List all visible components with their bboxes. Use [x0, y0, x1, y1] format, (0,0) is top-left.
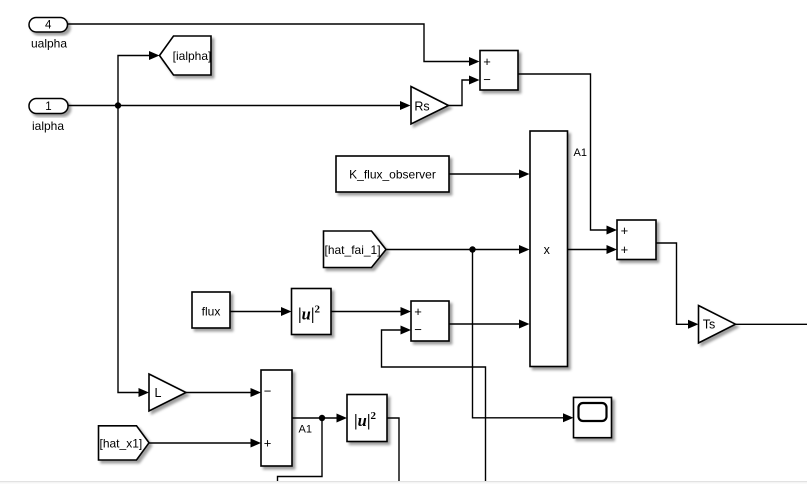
- wire from gain Rs to sum S1 minus input: [449, 80, 471, 106]
- arrowhead into gain Ts: [688, 320, 699, 329]
- wire branch from S4 output junction down and left to bottom edge: [278, 418, 323, 481]
- wire from abs-square U2 output down to bottom edge: [387, 418, 399, 481]
- arrowhead into scope: [563, 413, 574, 422]
- svg-text:[hat_x1]: [hat_x1]: [100, 436, 143, 450]
- from tag [hat_fai_1]: [324, 231, 387, 268]
- svg-text:A1: A1: [299, 424, 312, 436]
- svg-text:ualpha: ualpha: [31, 37, 67, 51]
- arrowhead into sum S4 plus input: [251, 439, 262, 448]
- sum S1: [480, 51, 518, 91]
- wire from constant K_flux_observer to product A1 input 1: [449, 173, 520, 175]
- svg-text:x: x: [544, 243, 551, 257]
- wire branch from hat_fai_1 junction down to scope: [473, 250, 565, 418]
- wire from gain Ts output to right edge: [736, 323, 807, 325]
- arrowhead into sum S1 plus input: [469, 57, 480, 66]
- feedback wire from bottom into sum S3 minus input: [382, 330, 486, 481]
- arrowhead into sum S3 minus input: [401, 326, 412, 335]
- from tag [hat_x1]: [99, 426, 150, 460]
- abs-square U2: [347, 395, 387, 442]
- svg-text:L: L: [155, 386, 162, 400]
- arrowhead into product A1 input 2: [519, 245, 530, 254]
- arrowhead into gain Rs: [400, 101, 411, 110]
- constant flux: [192, 292, 230, 328]
- gain Rs: [411, 87, 449, 125]
- gain L: [149, 374, 186, 411]
- arrowhead into sum S3 plus input: [401, 307, 412, 316]
- arrowhead into product A1 input 3: [519, 320, 530, 329]
- svg-text:+: +: [621, 223, 629, 238]
- svg-text:+: +: [264, 435, 272, 450]
- wire from sum S1 output to sum S2 top input: [518, 74, 608, 230]
- inport 1: [29, 99, 68, 114]
- svg-text:[hat_fai_1]: [hat_fai_1]: [325, 243, 381, 257]
- inport 4: [29, 18, 68, 33]
- arrowhead into abs-square U2: [337, 414, 348, 423]
- svg-text:+: +: [414, 304, 422, 319]
- canvas bottom edge: [0, 482, 807, 484]
- junction node on ialpha wire: [115, 102, 121, 108]
- wire from from-tag hat_x1 to sum S4 plus input: [149, 442, 252, 444]
- wire branch up to goto [ialpha]: [118, 56, 150, 106]
- svg-text:ialpha: ialpha: [32, 119, 64, 133]
- arrowhead into product A1 input 1: [519, 170, 530, 179]
- sum S2: [617, 220, 656, 260]
- svg-text:−: −: [264, 384, 272, 399]
- wire from sum S4 output to abs-square U2: [292, 417, 338, 419]
- junction node on sum S4 output: [319, 415, 325, 421]
- wire from inport 1 (ialpha) to gain Rs: [68, 105, 401, 107]
- scope: [574, 397, 612, 437]
- svg-text:[ialpha]: [ialpha]: [173, 49, 212, 63]
- svg-text:1: 1: [45, 101, 51, 113]
- arrowhead into sum S2 top input: [607, 226, 618, 235]
- arrowhead into goto [ialpha]: [149, 51, 160, 60]
- wire from flux block to abs-square U1: [230, 311, 282, 313]
- sum S3: [411, 301, 449, 341]
- abs-square U1: [292, 289, 332, 335]
- product A1 (element-wise multiply): [530, 131, 568, 367]
- goto tag [ialpha]: [160, 36, 212, 75]
- arrowhead into sum S4 minus input: [251, 388, 262, 397]
- wire from inport 4 to sum S1 plus input: [68, 24, 471, 62]
- svg-text:−: −: [414, 322, 422, 337]
- arrowhead into sum S1 minus input: [469, 76, 480, 85]
- svg-text:K_flux_observer: K_flux_observer: [349, 167, 436, 181]
- arrowhead into sum S2 bottom input: [607, 245, 618, 254]
- arrowhead into abs-square U1: [281, 307, 292, 316]
- constant K_flux_observer: [336, 156, 449, 192]
- arrowhead into gain L: [139, 388, 150, 397]
- wire branch down to gain L: [118, 106, 140, 393]
- sum S4: [261, 370, 292, 466]
- wire from gain L to sum S4 minus input: [186, 392, 252, 394]
- svg-text:A1: A1: [574, 147, 587, 159]
- svg-text:4: 4: [45, 20, 52, 32]
- svg-text:+: +: [483, 54, 491, 69]
- svg-text:+: +: [621, 242, 629, 257]
- wire from sum S3 output to product A1 input 3: [449, 323, 520, 325]
- wire from abs-square U1 to sum S3 plus input: [331, 311, 402, 313]
- wire from from-tag hat_fai_1 to product A1 input 2: [386, 249, 520, 251]
- svg-text:−: −: [483, 72, 491, 87]
- junction node on hat_fai_1 wire: [469, 246, 475, 252]
- svg-text:Ts: Ts: [703, 318, 716, 332]
- gain Ts: [699, 306, 736, 344]
- svg-text:flux: flux: [202, 304, 221, 318]
- wire from sum S2 output to gain Ts: [657, 243, 690, 324]
- wire from product A1 output to sum S2 bottom input: [568, 249, 608, 251]
- svg-text:Rs: Rs: [414, 99, 429, 113]
